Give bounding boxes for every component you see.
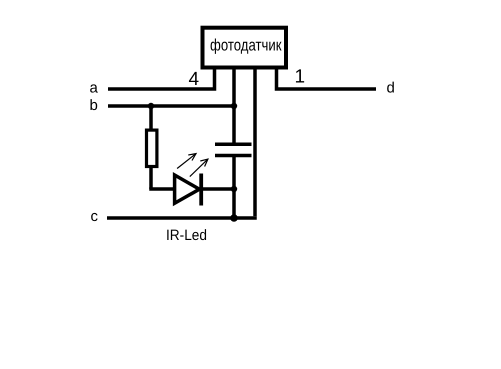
svg-text:IR-Led: IR-Led [166,227,207,244]
svg-text:c: c [91,208,99,225]
svg-text:a: a [90,80,99,97]
svg-text:1: 1 [295,67,306,88]
svg-text:b: b [90,97,98,114]
svg-text:d: d [387,80,395,97]
svg-text:фотодатчик: фотодатчик [210,37,282,55]
svg-text:4: 4 [189,69,200,90]
